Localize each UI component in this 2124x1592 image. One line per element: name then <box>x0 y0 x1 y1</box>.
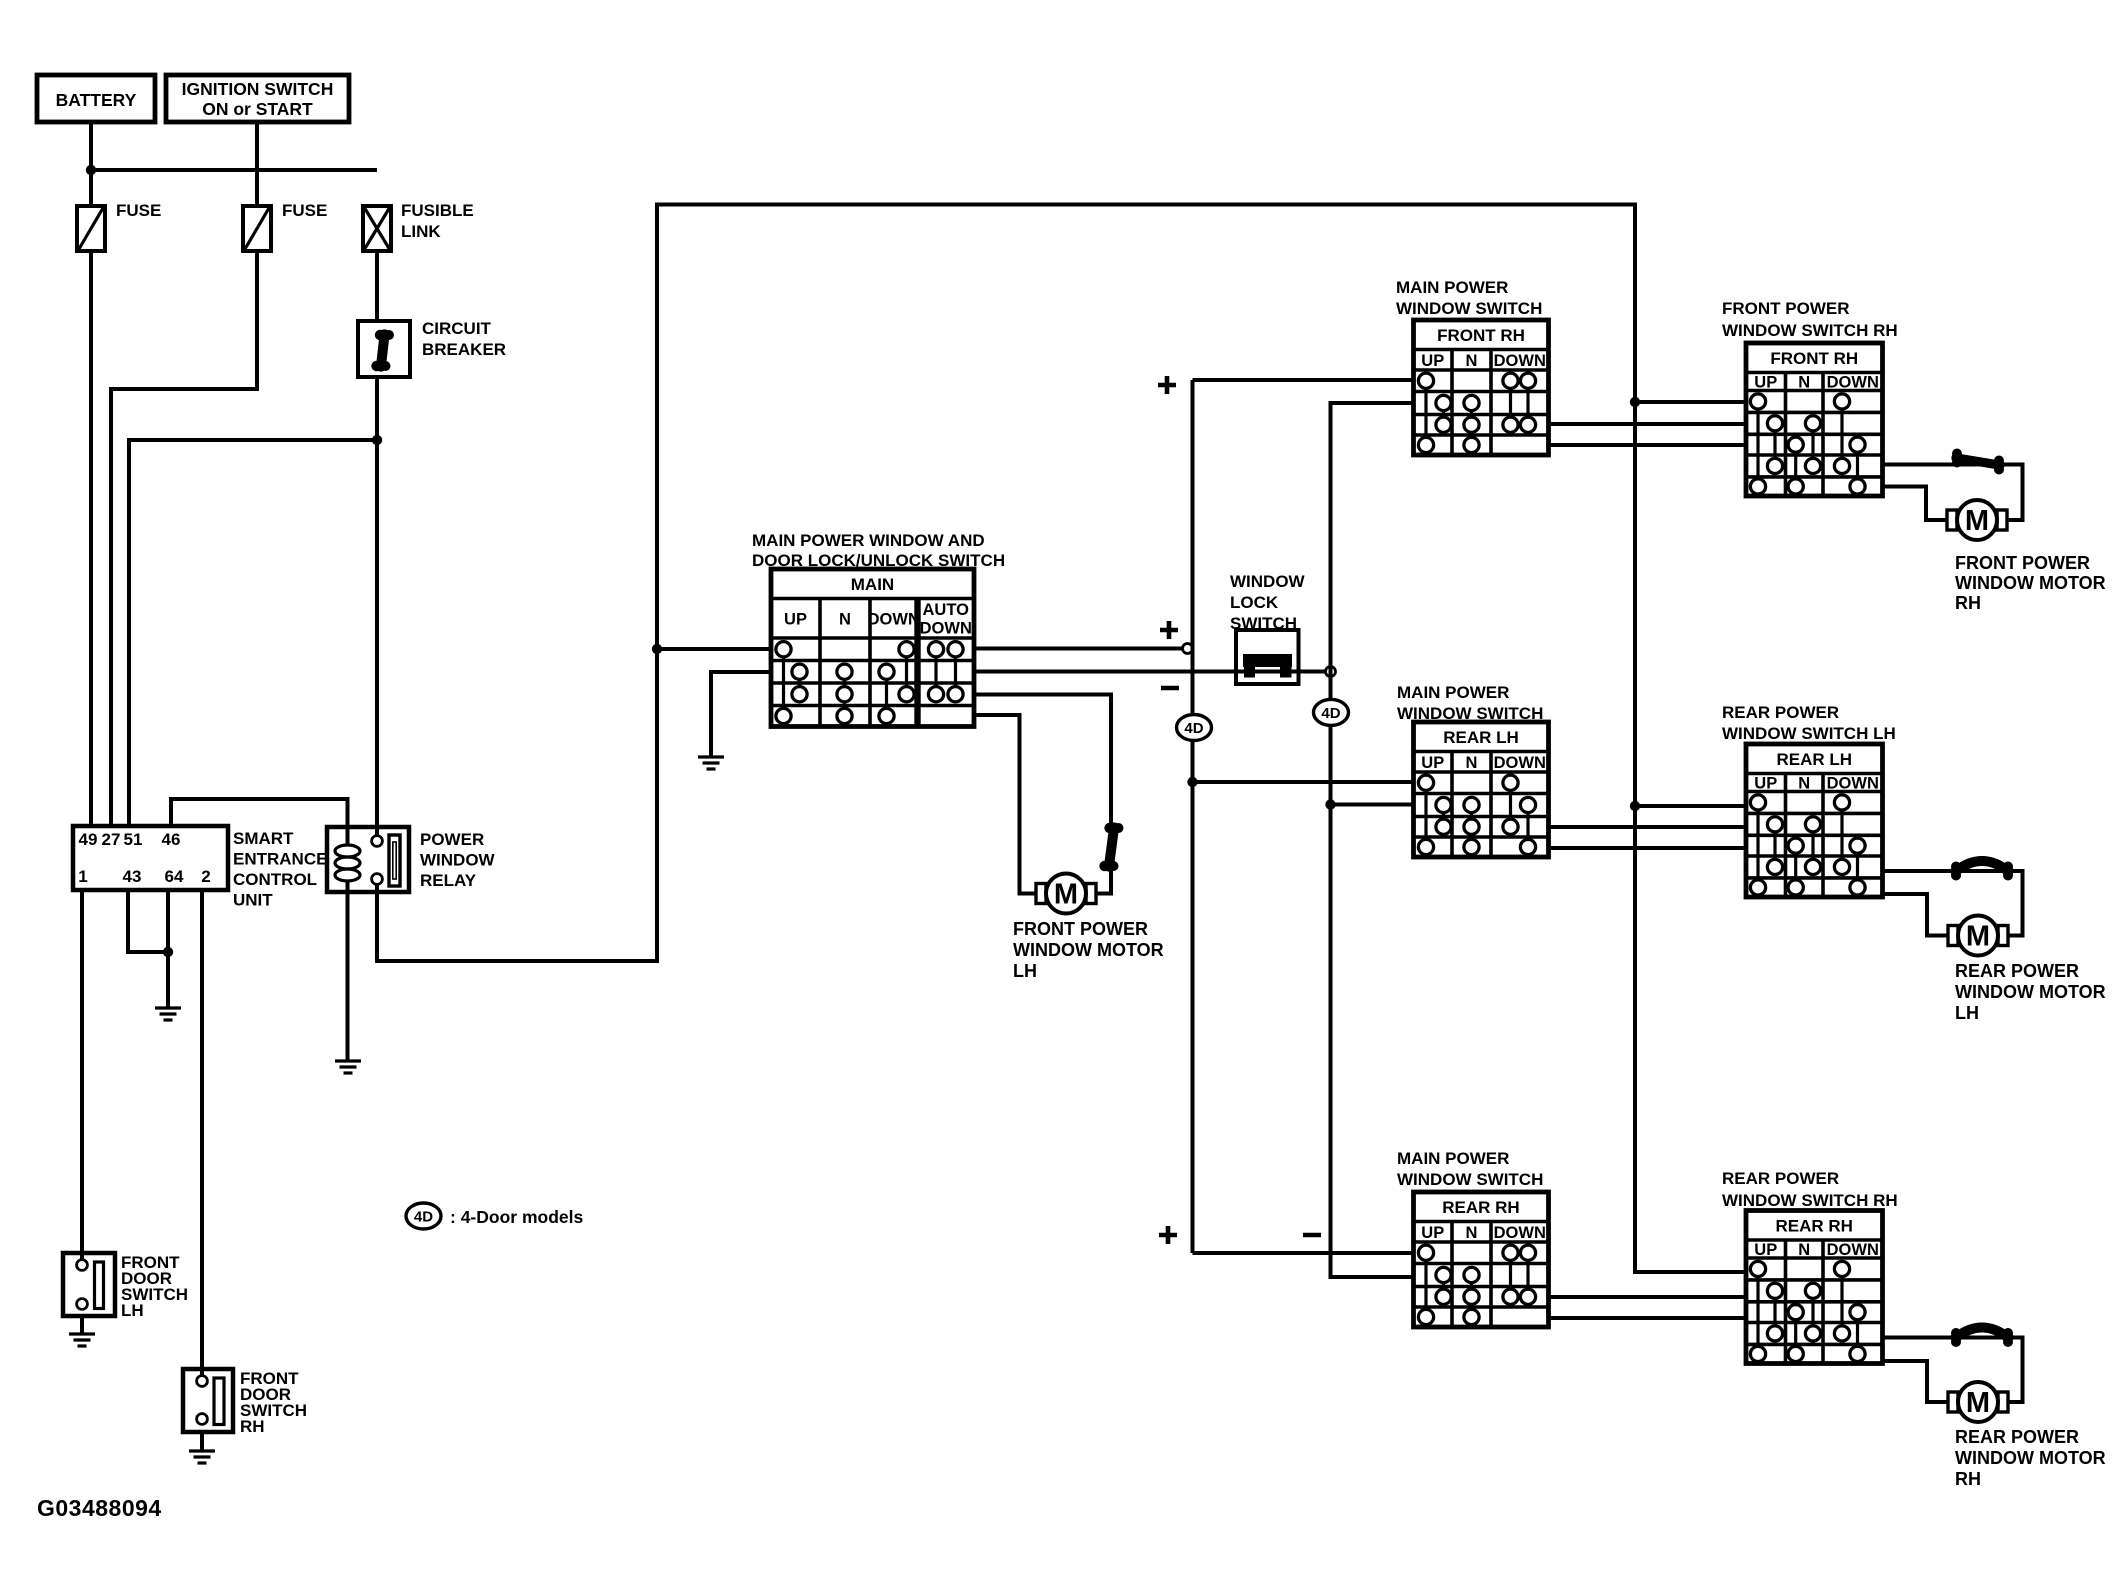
wire FRONT RH link row4 <box>1549 443 1747 447</box>
svg-text:MAIN: MAIN <box>851 575 894 594</box>
minus marker bottom <box>1303 1233 1321 1238</box>
wire FRONT RH switch row4 to motor <box>1883 465 2023 521</box>
svg-text:CIRCUIT: CIRCUIT <box>422 319 492 338</box>
svg-text:UP: UP <box>1754 374 1777 392</box>
wire pin 1 to door switch LH <box>80 890 84 1261</box>
svg-text:BATTERY: BATTERY <box>56 90 137 110</box>
wire fuse F2 to pin 27 <box>111 251 257 826</box>
circuit breaker CB1 <box>358 319 506 377</box>
wire fusible link to circuit breaker <box>375 251 379 321</box>
svg-text:MAIN POWER WINDOW AND: MAIN POWER WINDOW AND <box>752 531 985 550</box>
svg-text:MAIN POWER: MAIN POWER <box>1396 278 1508 297</box>
fuse F1 <box>77 201 161 251</box>
svg-text:64: 64 <box>165 867 184 886</box>
svg-text:UNIT: UNIT <box>233 891 273 910</box>
svg-text:REAR RH: REAR RH <box>1776 1216 1853 1235</box>
wire minus bus to REAR LH switch row2 <box>1331 803 1414 807</box>
label front power window motor LH <box>1013 919 1164 981</box>
label smart entrance control unit <box>233 829 327 910</box>
svg-text:FUSE: FUSE <box>116 201 161 220</box>
svg-text:46: 46 <box>162 830 181 849</box>
plus marker mid <box>1160 621 1178 639</box>
circuit breaker motor REAR RH <box>1950 1328 2013 1348</box>
main power window switch REAR LH table <box>1414 722 1549 857</box>
wire pin 64 to ground <box>166 890 170 1007</box>
svg-text:MAIN POWER: MAIN POWER <box>1397 683 1509 702</box>
wire ignition down <box>255 122 259 206</box>
svg-text:N: N <box>1466 1224 1478 1242</box>
svg-text:N: N <box>1466 754 1478 772</box>
front door switch RH <box>183 1369 233 1432</box>
svg-text:DOWN: DOWN <box>1494 1224 1546 1242</box>
label rear power window motor RH <box>1955 1427 2106 1489</box>
svg-text:N: N <box>1798 374 1810 392</box>
symbol 4D on plus bus <box>1177 715 1212 741</box>
window lock switch SW2 <box>1236 630 1299 684</box>
wire REAR RH switch row5 to motor <box>1883 1361 1950 1402</box>
wire plus bus bottom to REAR RH switch <box>1193 1251 1414 1255</box>
svg-text:RH: RH <box>1955 593 1981 613</box>
plus marker bottom <box>1159 1226 1177 1244</box>
fuse F2 <box>243 201 327 251</box>
rear power window switch LH table <box>1746 744 1883 897</box>
ground door switch RH <box>189 1451 215 1463</box>
svg-text:M: M <box>1965 505 1989 537</box>
motor front power window LH <box>1036 874 1096 914</box>
svg-text:REAR LH: REAR LH <box>1776 750 1852 769</box>
svg-text:REAR POWER: REAR POWER <box>1955 1427 2079 1447</box>
svg-text:WINDOW MOTOR: WINDOW MOTOR <box>1955 1448 2106 1468</box>
svg-text:G03488094: G03488094 <box>37 1495 162 1521</box>
wire MAIN row3 to motor LH <box>974 695 1111 894</box>
wire pin 2 to door switch RH <box>200 890 204 1377</box>
wire REAR RH switch row4 to motor <box>1883 1338 2023 1403</box>
wire REAR LH link row3 <box>1549 825 1747 829</box>
front power window switch RH table <box>1746 343 1883 496</box>
label window lock switch <box>1230 572 1306 633</box>
wire REAR LH switch row5 to motor <box>1883 894 1950 936</box>
svg-text:WINDOW: WINDOW <box>420 851 496 870</box>
svg-text:49: 49 <box>79 830 98 849</box>
svg-text:FRONT POWER: FRONT POWER <box>1722 299 1850 318</box>
junction minus bus REAR LH <box>1325 799 1335 809</box>
svg-text:REAR POWER: REAR POWER <box>1722 703 1839 722</box>
svg-text:DOWN: DOWN <box>920 620 972 638</box>
svg-text:FRONT RH: FRONT RH <box>1437 326 1525 345</box>
svg-text:WINDOW SWITCH RH: WINDOW SWITCH RH <box>1722 1191 1898 1210</box>
wire feed bus to FRONT RH window switch <box>1635 400 1746 404</box>
wire pin 43 <box>128 890 168 952</box>
pin 51 <box>124 830 143 849</box>
svg-text:43: 43 <box>123 867 142 886</box>
svg-text:LH: LH <box>1013 961 1037 981</box>
svg-text:WINDOW SWITCH RH: WINDOW SWITCH RH <box>1722 321 1898 340</box>
ground relay coil <box>335 1061 361 1073</box>
wire relay coil to ground <box>346 880 350 1060</box>
figure id G03488094 <box>37 1495 162 1521</box>
svg-text:UP: UP <box>1421 352 1444 370</box>
svg-text:UP: UP <box>1754 1241 1777 1259</box>
smart entrance control unit U1 <box>73 826 228 890</box>
svg-text:UP: UP <box>1754 775 1777 793</box>
wire plus bus vertical <box>1191 380 1195 1253</box>
wire REAR RH link row3 <box>1549 1295 1747 1299</box>
wire plus bus to REAR LH switch row1 <box>1193 780 1414 784</box>
wire feed bus to REAR LH window switch <box>1635 804 1746 808</box>
svg-text:WINDOW: WINDOW <box>1230 572 1306 591</box>
wire pin 46 to relay coil <box>171 799 348 846</box>
svg-text:UP: UP <box>1421 754 1444 772</box>
wire door switch LH ground <box>80 1316 84 1333</box>
wire door switch RH ground <box>200 1432 204 1450</box>
motor rear power window RH <box>1948 1382 2008 1422</box>
front door switch LH <box>63 1253 115 1316</box>
wire REAR LH switch row4 to motor <box>1883 871 2023 936</box>
label front power window motor RH <box>1955 553 2106 613</box>
svg-text:DOWN: DOWN <box>1827 1241 1879 1259</box>
junction feed bus FRONT RH <box>1630 397 1640 407</box>
label power window relay <box>420 830 496 890</box>
svg-text:27: 27 <box>102 830 121 849</box>
svg-text:SMART: SMART <box>233 829 294 848</box>
wire relay feed to MAIN row1 <box>657 647 771 651</box>
svg-text:REAR LH: REAR LH <box>1443 728 1519 747</box>
svg-text:RELAY: RELAY <box>420 871 477 890</box>
pin 27 <box>102 830 121 849</box>
label main power window switch REAR RH <box>1397 1149 1543 1189</box>
svg-text:WINDOW SWITCH: WINDOW SWITCH <box>1397 1170 1543 1189</box>
label front power window switch RH <box>1722 299 1898 340</box>
fusible link FL1 <box>363 201 474 251</box>
label main power window switch REAR LH <box>1397 683 1543 723</box>
svg-text:AUTO: AUTO <box>923 601 970 619</box>
svg-text:1: 1 <box>78 867 87 886</box>
rear power window switch RH table <box>1746 1211 1883 1364</box>
svg-text:M: M <box>1966 921 1990 953</box>
svg-text:4D: 4D <box>414 1209 433 1226</box>
battery B1 <box>37 75 155 122</box>
svg-text:UP: UP <box>1421 1224 1444 1242</box>
svg-text:IGNITION SWITCH: IGNITION SWITCH <box>182 79 334 99</box>
wire FRONT RH link row3 <box>1549 422 1747 426</box>
wire FRONT RH switch row5 to motor <box>1883 487 1949 521</box>
svg-text:N: N <box>1466 352 1478 370</box>
motor rear power window LH <box>1948 916 2008 956</box>
svg-text:LOCK: LOCK <box>1230 593 1279 612</box>
motor front power window RH <box>1947 500 2007 540</box>
svg-text:WINDOW SWITCH: WINDOW SWITCH <box>1396 299 1542 318</box>
pin 64 <box>165 867 184 886</box>
label rear power window motor LH <box>1955 961 2106 1023</box>
wire circuit breaker down <box>375 377 379 836</box>
svg-text:FRONT POWER: FRONT POWER <box>1013 919 1148 939</box>
wire MAIN row1 plus output <box>974 647 1184 651</box>
pin 46 <box>162 830 181 849</box>
wire plus bus top to FRONT RH switch <box>1193 378 1414 382</box>
svg-text:WINDOW MOTOR: WINDOW MOTOR <box>1955 982 2106 1002</box>
symbol 4D on minus bus <box>1314 699 1349 725</box>
wire MAIN row4 to motor LH <box>974 715 1038 894</box>
ground door switch LH <box>69 1334 95 1346</box>
svg-text:DOWN: DOWN <box>1827 775 1879 793</box>
wire MAIN row2 to ground <box>711 672 771 756</box>
svg-text:N: N <box>1798 775 1810 793</box>
junction pin43 pin64 <box>163 947 173 957</box>
junction relay feed MAIN <box>652 644 662 654</box>
svg-text:4D: 4D <box>1321 705 1340 722</box>
svg-text:N: N <box>839 610 851 628</box>
svg-text:DOWN: DOWN <box>1494 352 1546 370</box>
svg-text:WINDOW MOTOR: WINDOW MOTOR <box>1013 940 1164 960</box>
svg-text:REAR POWER: REAR POWER <box>1722 1169 1839 1188</box>
wire bus horizontal <box>91 168 377 172</box>
svg-text:ENTRANCE: ENTRANCE <box>233 850 327 869</box>
svg-text:REAR POWER: REAR POWER <box>1955 961 2079 981</box>
svg-text:FUSE: FUSE <box>282 201 327 220</box>
svg-text:: 4-Door models: : 4-Door models <box>450 1207 583 1227</box>
label front door switch LH <box>121 1253 188 1320</box>
svg-text:2: 2 <box>201 867 210 886</box>
connector minus node <box>1326 667 1336 677</box>
label rear power window switch RH <box>1722 1169 1898 1210</box>
svg-text:SWITCH: SWITCH <box>1230 614 1297 633</box>
pin 1 <box>78 867 87 886</box>
label front door switch RH <box>240 1369 307 1436</box>
main power window switch FRONT RH table <box>1414 320 1549 455</box>
svg-text:FRONT RH: FRONT RH <box>1770 349 1858 368</box>
svg-text:ON or START: ON or START <box>202 99 313 119</box>
wire MAIN row2 minus output <box>974 670 1326 674</box>
wire minus bus vertical <box>1331 403 1414 1277</box>
circuit breaker motor FRONT RH <box>1951 449 2004 475</box>
svg-text:51: 51 <box>124 830 143 849</box>
junction feed bus REAR LH <box>1630 801 1640 811</box>
circuit breaker motor LH <box>1099 822 1123 871</box>
svg-text:M: M <box>1054 879 1078 911</box>
plus marker top <box>1158 376 1176 394</box>
connector plus node <box>1183 644 1193 654</box>
wire relay output feed <box>377 205 1746 1273</box>
svg-text:FUSIBLE: FUSIBLE <box>401 201 474 220</box>
svg-text:WINDOW SWITCH LH: WINDOW SWITCH LH <box>1722 724 1896 743</box>
ground pin 64 <box>155 1008 181 1020</box>
ground MAIN switch <box>698 757 724 769</box>
legend 4D symbol <box>406 1203 441 1229</box>
pin 43 <box>123 867 142 886</box>
svg-text:UP: UP <box>784 610 807 628</box>
svg-text:POWER: POWER <box>420 830 484 849</box>
svg-text:LINK: LINK <box>401 222 441 241</box>
svg-text:RH: RH <box>240 1417 265 1436</box>
legend 4-door models text <box>450 1207 583 1227</box>
svg-text:RH: RH <box>1955 1469 1981 1489</box>
svg-text:M: M <box>1966 1387 1990 1419</box>
svg-text:FRONT POWER: FRONT POWER <box>1955 553 2090 573</box>
svg-text:CONTROL: CONTROL <box>233 870 317 889</box>
svg-text:DOWN: DOWN <box>1494 754 1546 772</box>
pin 2 <box>201 867 210 886</box>
svg-text:WINDOW MOTOR: WINDOW MOTOR <box>1955 573 2106 593</box>
wire REAR LH link row4 <box>1549 846 1747 850</box>
ignition switch SW1 <box>166 75 349 122</box>
svg-text:DOWN: DOWN <box>868 610 920 628</box>
svg-text:LH: LH <box>1955 1003 1979 1023</box>
power window relay K1 <box>327 827 409 892</box>
junction plus bus REAR LH <box>1187 777 1197 787</box>
svg-text:REAR RH: REAR RH <box>1442 1198 1519 1217</box>
junction circuit breaker branch <box>372 435 382 445</box>
label rear power window switch LH <box>1722 703 1896 743</box>
wire branch to pin 51 <box>129 440 377 826</box>
label main power window and door lock unlock switch <box>752 531 1005 570</box>
main power window and door lock unlock switch MAIN table <box>771 569 974 727</box>
pin 49 <box>79 830 98 849</box>
svg-text:N: N <box>1798 1241 1810 1259</box>
svg-text:DOWN: DOWN <box>1827 374 1879 392</box>
main power window switch REAR RH table <box>1414 1192 1549 1327</box>
wire fuse F1 to pin 49 <box>89 251 93 826</box>
svg-text:MAIN POWER: MAIN POWER <box>1397 1149 1509 1168</box>
wire REAR RH link row4 <box>1549 1316 1747 1320</box>
wire battery down <box>89 122 93 206</box>
svg-text:4D: 4D <box>1184 720 1203 737</box>
label main power window switch FRONT RH <box>1396 278 1542 318</box>
svg-text:BREAKER: BREAKER <box>422 340 506 359</box>
svg-text:LH: LH <box>121 1301 144 1320</box>
junction battery bus <box>86 165 96 175</box>
minus marker mid <box>1161 686 1179 691</box>
circuit breaker motor REAR LH <box>1950 861 2013 881</box>
